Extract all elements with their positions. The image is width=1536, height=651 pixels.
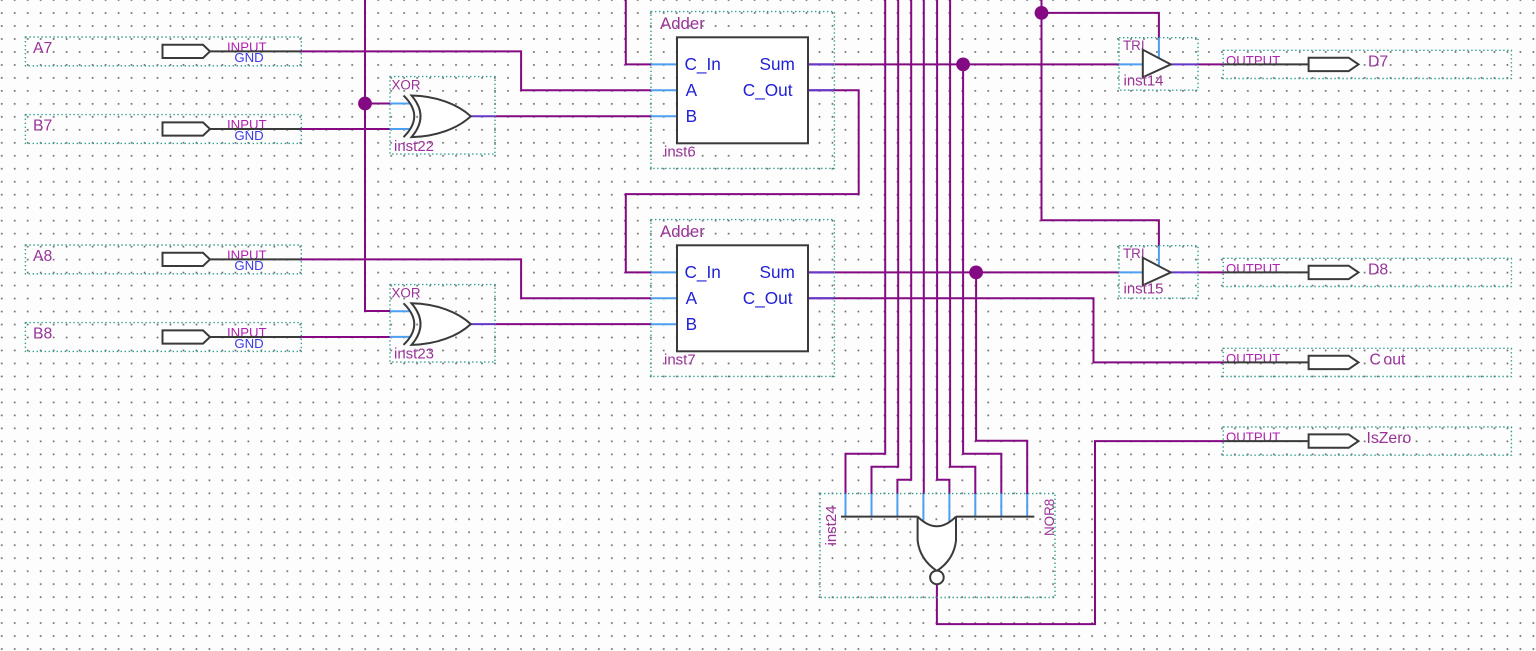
svg-text:B: B — [686, 314, 697, 334]
svg-text:B7: B7 — [33, 118, 52, 135]
wire bus line 4 to NOR8 — [923, 0, 925, 494]
input pin A8 — [25, 245, 301, 274]
svg-text:D8: D8 — [1368, 261, 1388, 278]
wire A8 net — [301, 259, 651, 298]
junction node Sum7 bus — [956, 58, 970, 72]
svg-text:OUTPUT: OUTPUT — [1226, 53, 1280, 68]
svg-text:A7: A7 — [33, 40, 52, 57]
svg-text:GND: GND — [234, 336, 263, 351]
svg-text:GND: GND — [234, 258, 263, 273]
svg-text:A8: A8 — [33, 248, 53, 265]
input pin A7 — [25, 37, 301, 66]
wire bus line 2 to NOR8 — [872, 0, 899, 494]
svg-text:C_Out: C_Out — [743, 288, 793, 308]
tri-state buffer inst14 — [1119, 38, 1198, 90]
svg-text:XOR: XOR — [392, 286, 421, 301]
svg-text:Adder: Adder — [660, 222, 705, 241]
adder block inst6 — [651, 12, 834, 169]
output pin IsZero — [1223, 427, 1511, 455]
svg-text:Cout: Cout — [1370, 351, 1406, 368]
svg-text:C_Out: C_Out — [743, 80, 793, 100]
svg-text:inst7: inst7 — [664, 352, 696, 369]
svg-text:inst6: inst6 — [664, 144, 696, 161]
wire IsZero net from NOR8 output — [937, 441, 1224, 624]
svg-text:inst24: inst24 — [823, 505, 840, 545]
wire bus line 5 to NOR8 — [937, 0, 949, 494]
wire B7 net — [301, 128, 390, 130]
svg-text:B: B — [686, 106, 697, 126]
svg-text:Sum: Sum — [760, 262, 795, 282]
svg-text:C_In: C_In — [685, 262, 721, 282]
output pin Cout — [1223, 348, 1511, 376]
junction node output-enable — [1035, 6, 1049, 20]
svg-text:C_In: C_In — [685, 54, 721, 74]
xor gate inst22 — [390, 77, 495, 155]
tri-state buffer inst15 — [1119, 246, 1198, 299]
svg-text:A: A — [686, 288, 698, 308]
nor gate NOR8 inst24 — [820, 494, 1057, 598]
svg-text:A: A — [686, 80, 698, 100]
wire TRI inst15 output to D8 — [1198, 271, 1224, 273]
wire A7 net — [301, 51, 651, 90]
wire bus line 3 to NOR8 — [897, 0, 911, 494]
wire output-enable net vertical — [1042, 0, 1159, 246]
svg-text:inst15: inst15 — [1124, 281, 1164, 298]
svg-text:inst23: inst23 — [394, 346, 434, 363]
input pin B8 — [25, 323, 301, 352]
junction node Sum8 bus — [969, 266, 983, 280]
svg-text:B8: B8 — [33, 326, 53, 343]
svg-text:NOR8: NOR8 — [1042, 499, 1057, 536]
wire B8 net — [301, 336, 390, 338]
wire bus line 1 to NOR8 — [846, 0, 886, 494]
svg-text:Adder: Adder — [660, 14, 705, 33]
wire Sum8 branch to NOR8 — [976, 272, 1027, 494]
svg-text:Sum: Sum — [760, 54, 795, 74]
svg-text:IsZero: IsZero — [1367, 430, 1412, 447]
wire XOR23 output net — [495, 323, 651, 325]
input pin B7 — [25, 115, 301, 144]
svg-text:TRI: TRI — [1123, 246, 1145, 261]
wire output-enable branch to TRI inst14 — [1042, 13, 1159, 38]
svg-text:D7: D7 — [1368, 53, 1388, 70]
wire control branch to XOR inst22 — [365, 103, 390, 105]
svg-text:OUTPUT: OUTPUT — [1226, 430, 1280, 445]
svg-text:GND: GND — [234, 50, 263, 65]
wire carry inst6 C_Out to inst7 C_In — [626, 90, 859, 272]
svg-text:inst22: inst22 — [394, 138, 434, 155]
svg-text:OUTPUT: OUTPUT — [1226, 351, 1280, 366]
wire Sum7 branch to NOR8 — [963, 64, 1001, 494]
svg-text:XOR: XOR — [392, 78, 421, 93]
svg-text:inst14: inst14 — [1124, 73, 1164, 90]
wire Sum7 net (inst6 Sum to TRI inst14) — [808, 63, 1119, 65]
svg-text:TRI: TRI — [1123, 38, 1145, 53]
wire TRI inst14 output to D7 — [1198, 63, 1224, 65]
output pin D7 — [1223, 50, 1511, 78]
junction node control/XOR22 — [358, 97, 372, 111]
output pin D8 — [1223, 258, 1511, 286]
xor gate inst23 — [390, 285, 495, 363]
wire Sum8 net (inst7 Sum to TRI inst15) — [808, 271, 1119, 273]
adder block inst7 — [651, 220, 834, 377]
wire XOR22 output net — [495, 115, 651, 117]
wire control net vertical — [365, 0, 390, 311]
wire bus line 6 to NOR8 — [950, 0, 975, 494]
svg-text:OUTPUT: OUTPUT — [1226, 261, 1280, 276]
svg-text:GND: GND — [234, 128, 263, 143]
wire Cout net — [808, 298, 1224, 362]
wire carry-in net — [626, 0, 651, 64]
